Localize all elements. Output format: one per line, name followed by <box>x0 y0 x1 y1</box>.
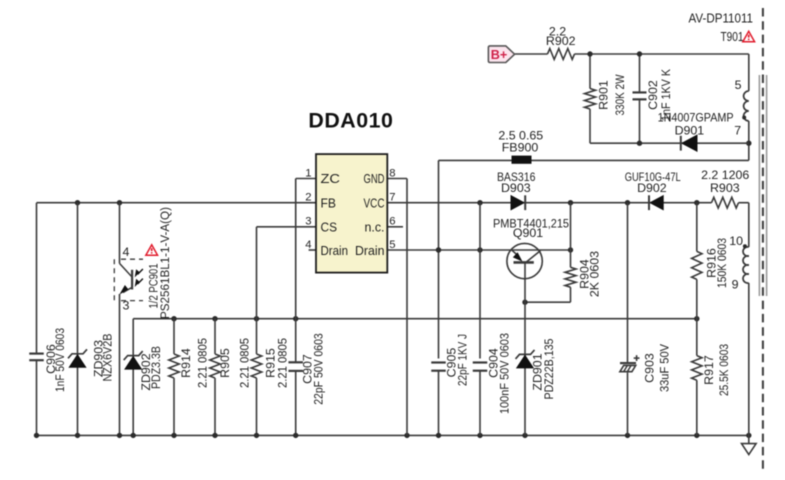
svg-text:6: 6 <box>389 216 395 228</box>
svg-text:GND: GND <box>364 172 385 186</box>
svg-text:25.5K 0603: 25.5K 0603 <box>717 344 731 396</box>
svg-text:PS2561BL1-1-V-A(Q): PS2561BL1-1-V-A(Q) <box>158 207 172 319</box>
svg-text:1: 1 <box>305 167 311 179</box>
svg-text:100nF 50V 0603: 100nF 50V 0603 <box>497 333 511 414</box>
svg-text:1nF 1KV K: 1nF 1KV K <box>659 68 673 121</box>
svg-text:PDZ22B,135: PDZ22B,135 <box>542 338 556 399</box>
svg-text:R903: R903 <box>710 181 740 195</box>
svg-text:5: 5 <box>389 239 395 251</box>
svg-text:Drain: Drain <box>355 244 385 258</box>
svg-text:D902: D902 <box>637 181 667 195</box>
svg-text:ZC: ZC <box>321 172 341 186</box>
svg-text:1nF 50V 0603: 1nF 50V 0603 <box>53 328 67 392</box>
svg-text:5: 5 <box>735 78 742 92</box>
svg-text:2.21 0805: 2.21 0805 <box>195 338 209 388</box>
svg-text:3: 3 <box>123 299 130 313</box>
svg-text:2.2 1206: 2.2 1206 <box>701 168 749 182</box>
svg-text:Drain: Drain <box>321 244 349 258</box>
svg-text:8: 8 <box>389 167 395 179</box>
svg-text:2.21 0805: 2.21 0805 <box>238 338 252 388</box>
svg-text:4: 4 <box>305 239 311 251</box>
svg-text:Q901: Q901 <box>513 226 543 240</box>
svg-text:D901: D901 <box>675 123 705 137</box>
svg-text:33uF 50V: 33uF 50V <box>658 343 672 392</box>
svg-text:VCC: VCC <box>364 196 385 210</box>
svg-text:2.21 0805: 2.21 0805 <box>275 338 289 388</box>
svg-text:22pF 1KV J: 22pF 1KV J <box>456 334 470 386</box>
svg-text:4: 4 <box>123 245 130 259</box>
svg-text:n.c.: n.c. <box>365 220 385 234</box>
svg-text:T901: T901 <box>721 30 744 44</box>
svg-text:22pF 50V 0603: 22pF 50V 0603 <box>312 333 326 405</box>
svg-text:330K 2W: 330K 2W <box>613 74 627 115</box>
svg-text:7: 7 <box>389 192 395 204</box>
svg-text:FB: FB <box>321 196 337 210</box>
svg-text:R905: R905 <box>218 348 232 378</box>
svg-text:R901: R901 <box>596 80 610 110</box>
svg-text:R917: R917 <box>702 355 716 385</box>
svg-text:CS: CS <box>321 220 338 234</box>
svg-text:DDA010: DDA010 <box>308 109 393 132</box>
svg-text:D903: D903 <box>501 181 531 195</box>
svg-text:R914: R914 <box>179 348 193 378</box>
svg-text:150K 0603: 150K 0603 <box>715 238 729 288</box>
svg-text:B+: B+ <box>491 47 508 62</box>
svg-text:R902: R902 <box>546 34 576 48</box>
svg-text:FB900: FB900 <box>502 141 539 155</box>
svg-text:C902: C902 <box>646 80 660 110</box>
svg-text:7: 7 <box>734 124 741 138</box>
svg-text:9: 9 <box>732 278 739 292</box>
svg-text:NZX6V2B: NZX6V2B <box>101 334 115 382</box>
svg-text:10: 10 <box>729 234 743 248</box>
svg-text:2K 0603: 2K 0603 <box>588 251 602 297</box>
svg-text:AV-DP11011: AV-DP11011 <box>689 12 754 26</box>
svg-text:2: 2 <box>305 192 311 204</box>
svg-text:PDZ3.3B: PDZ3.3B <box>149 346 163 389</box>
svg-text:3: 3 <box>305 216 311 228</box>
svg-text:C903: C903 <box>643 353 657 383</box>
